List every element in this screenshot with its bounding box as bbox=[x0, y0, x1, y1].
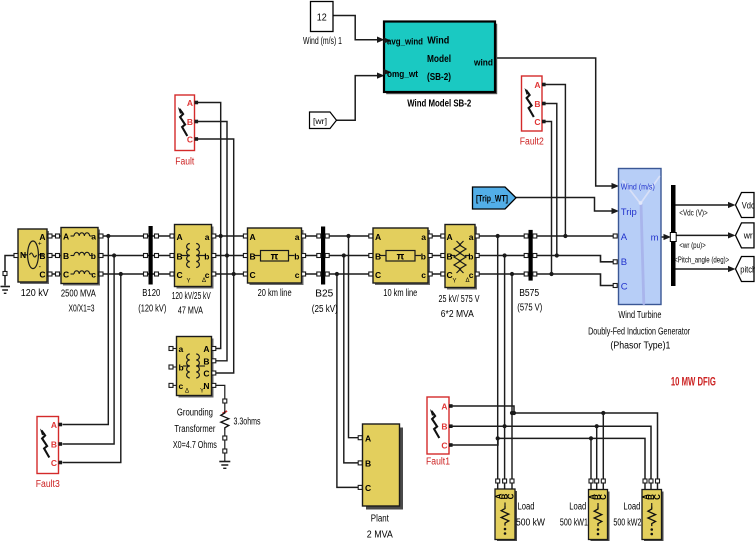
svg-text:(120 kV): (120 kV) bbox=[138, 304, 166, 315]
svg-text:Y: Y bbox=[187, 279, 191, 285]
svg-text:Model: Model bbox=[427, 54, 451, 65]
svg-text:b: b bbox=[179, 363, 184, 373]
svg-text:6*2 MVA: 6*2 MVA bbox=[441, 309, 474, 320]
svg-text:Wind: Wind bbox=[427, 36, 449, 47]
svg-text:wr: wr bbox=[743, 231, 753, 242]
svg-text:500 kW2: 500 kW2 bbox=[613, 518, 641, 529]
svg-text:Doubly-Fed Induction Generator: Doubly-Fed Induction Generator bbox=[588, 327, 690, 338]
svg-text:B: B bbox=[177, 252, 183, 262]
svg-text:B575: B575 bbox=[519, 288, 539, 299]
svg-text:N: N bbox=[20, 250, 26, 260]
svg-text:c: c bbox=[295, 270, 300, 280]
svg-text:C: C bbox=[621, 281, 628, 292]
svg-text:12: 12 bbox=[317, 13, 327, 24]
svg-text:Load: Load bbox=[518, 502, 535, 513]
svg-text:3.3ohms: 3.3ohms bbox=[234, 417, 261, 428]
svg-text:C: C bbox=[365, 483, 371, 493]
svg-text:A: A bbox=[365, 434, 371, 444]
svg-text:C: C bbox=[177, 270, 183, 280]
svg-text:Transformer: Transformer bbox=[174, 424, 215, 435]
svg-text:47 MVA: 47 MVA bbox=[178, 306, 203, 317]
svg-text:pitch: pitch bbox=[740, 264, 755, 275]
svg-text:wind: wind bbox=[473, 58, 493, 69]
svg-text:Y: Y bbox=[200, 389, 204, 395]
svg-text:A: A bbox=[39, 232, 45, 242]
svg-text:Load: Load bbox=[569, 502, 586, 513]
svg-text:N: N bbox=[203, 381, 209, 391]
svg-text:A: A bbox=[250, 232, 256, 242]
svg-text:A: A bbox=[51, 420, 57, 430]
svg-text:120 kV: 120 kV bbox=[21, 288, 49, 299]
svg-text:(SB-2): (SB-2) bbox=[427, 72, 451, 83]
svg-text:Grounding: Grounding bbox=[177, 408, 213, 419]
svg-text:<wr (pu)>: <wr (pu)> bbox=[679, 241, 706, 250]
svg-text:<Vdc (V)>: <Vdc (V)> bbox=[679, 208, 708, 217]
svg-text:m: m bbox=[651, 232, 659, 243]
svg-text:Δ: Δ bbox=[185, 389, 189, 395]
svg-text:a: a bbox=[295, 232, 300, 242]
svg-text:A: A bbox=[63, 232, 69, 242]
svg-text:A: A bbox=[375, 232, 381, 242]
svg-text:Trip: Trip bbox=[621, 207, 637, 218]
svg-text:B: B bbox=[441, 422, 447, 432]
svg-text:C: C bbox=[187, 135, 193, 145]
svg-text:A: A bbox=[534, 80, 540, 90]
svg-text:A: A bbox=[187, 98, 193, 108]
svg-text:Wind (m/s): Wind (m/s) bbox=[621, 181, 655, 191]
svg-text:a: a bbox=[421, 232, 426, 242]
svg-text:C: C bbox=[534, 117, 540, 127]
svg-text:b: b bbox=[468, 252, 473, 262]
svg-text:b: b bbox=[204, 252, 209, 262]
svg-text:b: b bbox=[294, 252, 299, 262]
svg-text:B: B bbox=[63, 251, 69, 261]
svg-text:Δ: Δ bbox=[466, 278, 470, 284]
svg-text:B: B bbox=[187, 117, 193, 127]
svg-text:c: c bbox=[421, 270, 426, 280]
svg-text:C: C bbox=[203, 369, 209, 379]
svg-text:B: B bbox=[447, 252, 453, 262]
svg-text:C: C bbox=[250, 270, 256, 280]
svg-text:A: A bbox=[621, 232, 628, 243]
svg-text:Wind Model SB-2: Wind Model SB-2 bbox=[407, 98, 471, 110]
svg-text:π: π bbox=[397, 251, 405, 262]
svg-text:Fault: Fault bbox=[175, 157, 194, 168]
svg-text:Wind Turbine: Wind Turbine bbox=[618, 310, 661, 321]
svg-text:(575 V): (575 V) bbox=[517, 303, 542, 314]
svg-text:A: A bbox=[441, 402, 447, 412]
svg-text:Fault3: Fault3 bbox=[36, 479, 60, 490]
svg-text:120 kV/25 kV: 120 kV/25 kV bbox=[172, 291, 211, 302]
svg-text:C: C bbox=[599, 494, 608, 500]
svg-text:C: C bbox=[375, 270, 381, 280]
svg-text:c: c bbox=[179, 381, 184, 391]
svg-text:C: C bbox=[51, 458, 57, 468]
svg-text:Vdc: Vdc bbox=[742, 200, 755, 211]
svg-text:A: A bbox=[447, 232, 453, 242]
svg-text:B25: B25 bbox=[315, 289, 333, 300]
svg-text:B120: B120 bbox=[142, 288, 160, 299]
svg-text:Wind (m/s) 1: Wind (m/s) 1 bbox=[303, 36, 342, 47]
svg-text:Plant: Plant bbox=[371, 514, 389, 525]
svg-text:c: c bbox=[469, 270, 474, 280]
svg-text:a: a bbox=[469, 232, 474, 242]
svg-text:C: C bbox=[507, 493, 516, 499]
svg-text:2 MVA: 2 MVA bbox=[367, 530, 393, 541]
svg-text:a: a bbox=[205, 232, 210, 242]
svg-text:B: B bbox=[534, 99, 540, 109]
svg-text:X0=4.7 Ohms: X0=4.7 Ohms bbox=[173, 440, 217, 451]
svg-text:20 km line: 20 km line bbox=[258, 288, 292, 299]
svg-text:B: B bbox=[51, 440, 57, 450]
svg-text:Load: Load bbox=[623, 502, 640, 513]
svg-text:X0/X1=3: X0/X1=3 bbox=[69, 304, 95, 315]
svg-text:Fault2: Fault2 bbox=[520, 137, 544, 148]
svg-text:25 kV/ 575 V: 25 kV/ 575 V bbox=[439, 294, 480, 305]
svg-text:C: C bbox=[441, 441, 447, 451]
svg-text:B: B bbox=[375, 252, 381, 262]
svg-text:<Pitch_angle (deg)>: <Pitch_angle (deg)> bbox=[674, 255, 729, 264]
svg-text:A: A bbox=[203, 344, 209, 354]
svg-text:C: C bbox=[63, 270, 69, 280]
svg-text:omg_wt: omg_wt bbox=[387, 69, 418, 79]
svg-text:10 MW DFIG: 10 MW DFIG bbox=[671, 377, 716, 389]
svg-text:B: B bbox=[621, 257, 627, 268]
svg-text:π: π bbox=[271, 251, 279, 262]
svg-text:B: B bbox=[365, 459, 371, 469]
svg-text:B: B bbox=[203, 356, 209, 366]
svg-text:Δ: Δ bbox=[202, 278, 206, 284]
svg-text:(Phasor Type)1: (Phasor Type)1 bbox=[610, 341, 670, 352]
svg-text:avg_wind: avg_wind bbox=[387, 37, 423, 47]
svg-text:C: C bbox=[653, 494, 662, 500]
svg-text:2500 MVA: 2500 MVA bbox=[61, 289, 96, 300]
svg-text:b: b bbox=[421, 252, 426, 262]
svg-text:B: B bbox=[39, 251, 45, 261]
svg-text:[Trip_WT]: [Trip_WT] bbox=[476, 193, 508, 203]
svg-text:A: A bbox=[177, 232, 183, 242]
svg-text:Fault1: Fault1 bbox=[426, 457, 450, 468]
svg-text:[wr]: [wr] bbox=[313, 116, 327, 126]
svg-text:C: C bbox=[39, 270, 45, 280]
svg-text:500 kW1: 500 kW1 bbox=[560, 518, 588, 529]
svg-text:(25 kV): (25 kV) bbox=[312, 304, 338, 315]
svg-text:a: a bbox=[179, 344, 184, 354]
svg-text:B: B bbox=[250, 252, 256, 262]
svg-text:500 kW: 500 kW bbox=[516, 518, 545, 529]
svg-text:10 km line: 10 km line bbox=[383, 288, 417, 299]
svg-text:Y: Y bbox=[453, 279, 457, 285]
